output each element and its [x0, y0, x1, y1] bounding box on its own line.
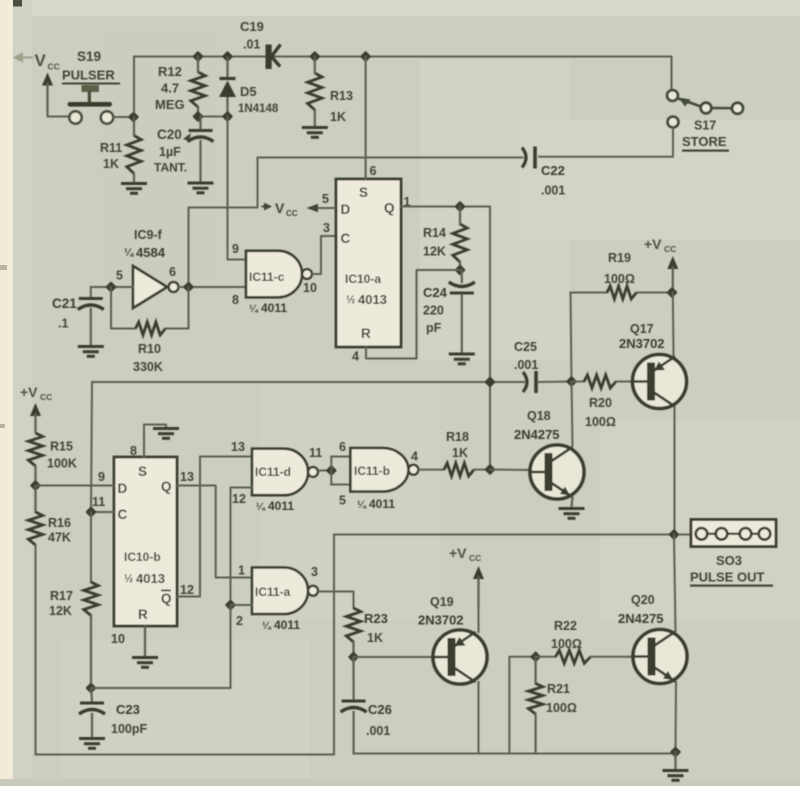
- svg-text:¼: ¼: [262, 620, 272, 632]
- svg-text:12K: 12K: [49, 604, 72, 618]
- wire Q19 collector down to bottom rail: [478, 682, 480, 754]
- svg-text:CC: CC: [469, 553, 481, 563]
- resistor R22: [556, 650, 591, 663]
- wire C24 to ground: [461, 295, 463, 352]
- wire input node left segment: [91, 286, 111, 288]
- junction top rail / R12: [192, 51, 203, 62]
- svg-text:8: 8: [232, 293, 239, 307]
- switch S19 pushbutton: [68, 85, 114, 124]
- svg-text:+V: +V: [449, 545, 467, 561]
- wire tie node vertical: [330, 457, 332, 485]
- svg-text:C23: C23: [116, 702, 140, 717]
- svg-text:100pF: 100pF: [111, 722, 147, 736]
- wire IC10-b S pin to ground: [144, 425, 166, 458]
- svg-text:.001: .001: [366, 724, 390, 738]
- junction R14/C24/R-pin loop: [454, 264, 465, 275]
- wire top rail down to S17 pole: [670, 57, 673, 90]
- svg-text:¼: ¼: [357, 499, 367, 511]
- svg-text:D5: D5: [240, 84, 257, 99]
- junction top rail / D5: [222, 51, 233, 62]
- resistor R21: [528, 684, 542, 715]
- svg-text:IC11-c: IC11-c: [249, 270, 285, 284]
- svg-text:5: 5: [339, 494, 346, 508]
- svg-text:4584: 4584: [136, 245, 166, 260]
- svg-text:pF: pF: [426, 321, 442, 335]
- svg-text:IC11-a: IC11-a: [255, 585, 291, 599]
- resistor R16: [28, 512, 42, 545]
- wire to IC11-b pin 6: [331, 456, 350, 458]
- svg-text:2N4275: 2N4275: [514, 427, 560, 442]
- wire Q20 collector up to SO3 node: [674, 535, 676, 632]
- power +Vcc arrow (Q19): [473, 566, 484, 608]
- svg-text:C26: C26: [368, 702, 392, 717]
- wire node to R22: [536, 656, 556, 658]
- junction Q output / R14: [454, 201, 465, 212]
- svg-text:IC9-f: IC9-f: [134, 228, 163, 242]
- wire cross row y=207.5 and up to C22 row: [189, 158, 258, 208]
- page corner mark: [13, 0, 22, 7]
- ground Q18: [559, 509, 585, 519]
- svg-text:½: ½: [346, 294, 355, 306]
- resistor R18: [444, 463, 474, 476]
- wire rail corner down to C pin node: [91, 382, 92, 512]
- wire C22 left to corner x=257.5: [258, 157, 523, 159]
- svg-text:Q18: Q18: [527, 409, 551, 423]
- wire node to SO3 connector: [679, 534, 691, 536]
- wire rail to R13: [314, 57, 316, 74]
- svg-text:C20: C20: [157, 127, 182, 142]
- svg-text:1N4148: 1N4148: [238, 103, 279, 115]
- wire rail y=382 from x=92 to C25: [92, 381, 524, 383]
- wire R19 left down to R20 node: [571, 293, 572, 382]
- junction R15/R16/IC10-b D: [30, 480, 41, 491]
- svg-text:R18: R18: [446, 430, 469, 444]
- wire D5 bottom down to IC11-c pin 9 level: [227, 117, 229, 260]
- svg-text:½: ½: [124, 573, 133, 585]
- ground R11: [121, 184, 147, 194]
- power +Vcc arrow (S19): [42, 73, 53, 116]
- svg-text:4013: 4013: [136, 571, 165, 586]
- svg-text:PULSER: PULSER: [62, 68, 115, 83]
- wire junction to C20: [199, 117, 201, 129]
- page edge specks: [0, 265, 7, 428]
- wire top rail to IC10-a pin 6 (S): [365, 57, 367, 180]
- svg-text:C25: C25: [514, 340, 537, 354]
- svg-text:TANT.: TANT.: [154, 161, 187, 175]
- junction inverter input / R10: [105, 281, 116, 292]
- wire C pin node down to R17: [90, 512, 92, 582]
- junction IC11-d out / IC11-b inputs: [326, 465, 337, 476]
- wire Q17 collector down to SO3 node: [674, 408, 676, 535]
- svg-text:R20: R20: [589, 396, 612, 410]
- wire node to R20: [572, 381, 585, 383]
- svg-text:+V: +V: [20, 384, 38, 400]
- svg-text:C: C: [341, 231, 351, 246]
- wire pin 2 node down-left to C23 node: [91, 605, 231, 688]
- svg-text:CC: CC: [664, 244, 676, 254]
- logic gate IC11-b (NAND): [350, 448, 418, 492]
- wire IC11-d output to tie node: [319, 470, 331, 472]
- svg-text:1K: 1K: [367, 631, 383, 645]
- svg-text:6: 6: [339, 440, 346, 454]
- label C20 pointer arrow: [183, 133, 191, 141]
- wire rail to R12: [197, 57, 199, 73]
- svg-text:STORE: STORE: [682, 134, 727, 149]
- capacitor C26 .001: [341, 701, 367, 712]
- svg-text:IC10-b: IC10-b: [124, 550, 161, 564]
- svg-text:R16: R16: [48, 516, 71, 530]
- svg-text:IC11-d: IC11-d: [255, 465, 291, 479]
- junction C25/R19/R20/Q18 collector: [566, 376, 577, 387]
- svg-text:R13: R13: [330, 89, 353, 103]
- resistor R12: [191, 72, 205, 107]
- ground IC10-b pin 10: [132, 658, 158, 668]
- svg-text:11: 11: [309, 446, 322, 460]
- wire S19 to R11 junction: [113, 116, 133, 118]
- wire IC10-b R pin to ground: [144, 626, 146, 656]
- junction C pin / R17 column: [85, 506, 96, 517]
- svg-text:C24: C24: [423, 285, 448, 300]
- diode D5 1N4148: [219, 57, 236, 117]
- wire down to IC9-f output junction: [188, 208, 190, 288]
- wire into IC11-c pin 9: [228, 259, 247, 261]
- svg-text:4: 4: [352, 350, 359, 364]
- wire IC10-a D pin with left arrow: [307, 204, 337, 212]
- svg-text:S: S: [359, 185, 368, 200]
- wire node to Q19 base: [354, 656, 433, 658]
- svg-text:R21: R21: [547, 682, 570, 696]
- junction R12/C20: [192, 111, 203, 122]
- logic gate IC11-c (NAND): [246, 251, 312, 297]
- wire to R14 top: [459, 207, 461, 225]
- ground Q20 (main): [663, 771, 689, 781]
- svg-text:R11: R11: [100, 141, 122, 155]
- svg-text:R17: R17: [50, 589, 73, 603]
- svg-text:.1: .1: [58, 317, 68, 331]
- svg-text:6: 6: [169, 265, 176, 279]
- wire junction to C24: [460, 270, 462, 282]
- wire node to IC10-b D pin: [36, 485, 115, 487]
- wire Q18 collector up to R20 node: [572, 382, 573, 446]
- logic gate IC11-a (NAND): [252, 568, 318, 615]
- svg-text:IC10-a: IC10-a: [345, 272, 381, 286]
- wire IC11-a output to R23: [319, 592, 354, 609]
- wire junction to R11: [133, 117, 135, 136]
- svg-text:C21: C21: [52, 296, 77, 311]
- svg-text:C19: C19: [240, 19, 264, 34]
- wire C26 to bottom rail: [353, 712, 355, 754]
- svg-text:12: 12: [232, 492, 246, 506]
- op-amp/inverter IC9-f: [133, 266, 178, 308]
- wire R22 to Q20 base: [591, 656, 635, 658]
- label STORE underline: [682, 150, 729, 152]
- junction S19/R11/top-rail: [128, 111, 139, 122]
- svg-text:S17: S17: [694, 119, 716, 133]
- wire node to C23: [91, 688, 92, 701]
- svg-text:3: 3: [323, 221, 330, 235]
- resistor R10: [136, 322, 166, 335]
- power +Vcc arrow (R15): [30, 403, 41, 433]
- wire to IC11-b pin 5: [331, 484, 350, 486]
- svg-text:4011: 4011: [261, 301, 287, 315]
- svg-text:12K: 12K: [423, 245, 446, 259]
- svg-text:47K: 47K: [48, 531, 71, 545]
- svg-text:+V: +V: [644, 236, 662, 252]
- svg-text:1: 1: [238, 564, 245, 578]
- junction R18 / Q column / Q18 base: [484, 464, 495, 475]
- wire bottom rail: [354, 753, 676, 755]
- junction inverter output / feedback: [183, 281, 194, 292]
- label PULSE OUT underline: [690, 585, 773, 587]
- junction R19 / Vcc column: [666, 287, 677, 298]
- wire feedback down-left: [111, 287, 136, 329]
- svg-text:8: 8: [130, 444, 137, 458]
- svg-text:4011: 4011: [268, 499, 294, 513]
- svg-text:4.7: 4.7: [161, 81, 179, 96]
- svg-text:R23: R23: [364, 611, 388, 626]
- svg-text:R15: R15: [50, 440, 73, 454]
- svg-text:S19: S19: [77, 49, 101, 64]
- capacitor C25: [523, 371, 536, 393]
- svg-text:9: 9: [232, 242, 239, 256]
- wire S17 lower throw to C22: [539, 128, 673, 157]
- wire Q20 emitter to rail node: [675, 682, 678, 752]
- svg-text:MEG: MEG: [155, 97, 185, 112]
- wire C20 to ground: [199, 141, 201, 181]
- wire R13 to ground: [314, 110, 316, 126]
- svg-text:Q19: Q19: [430, 595, 454, 609]
- resistor R11: [127, 136, 141, 174]
- capacitor C24 220pF: [449, 282, 475, 293]
- svg-text:4011: 4011: [369, 497, 395, 511]
- svg-text:4013: 4013: [358, 292, 387, 307]
- svg-text:V: V: [35, 51, 47, 70]
- svg-text:1K: 1K: [103, 157, 119, 171]
- svg-text:13: 13: [231, 440, 245, 454]
- svg-text:11: 11: [92, 495, 105, 509]
- transistor Q17 (2N3702 PNP): [633, 355, 687, 409]
- svg-text:1K: 1K: [452, 446, 468, 460]
- IC U10-b body (1/2 4013): [114, 457, 177, 626]
- svg-text:.01: .01: [243, 38, 260, 52]
- capacitor C20 1uF TANT: [188, 131, 214, 142]
- svg-text:¼: ¼: [124, 247, 134, 259]
- svg-text:Q: Q: [384, 201, 395, 216]
- svg-text:220: 220: [423, 304, 444, 318]
- wire node to ground: [674, 752, 676, 769]
- label PULSER underline: [62, 83, 120, 85]
- wire node to R16: [34, 486, 36, 513]
- junction top rail / R13: [309, 51, 320, 62]
- wire R11 to ground: [133, 174, 135, 183]
- resistor R19: [607, 286, 637, 299]
- wire node to IC11-a pin 2: [231, 604, 253, 606]
- power +Vcc arrow (Q17): [667, 256, 678, 293]
- svg-text:4011: 4011: [274, 618, 300, 632]
- wire R14 bottom: [459, 262, 461, 270]
- svg-text:V: V: [275, 200, 285, 216]
- junction rail / Q column: [484, 376, 495, 387]
- node +Vcc top-left faint arrow: [15, 54, 33, 61]
- wire R23 to base node: [352, 642, 354, 657]
- wire C21 node to inverter input: [111, 286, 133, 288]
- svg-text:2: 2: [236, 614, 243, 628]
- wire Vcc to Q19 emitter: [478, 606, 480, 632]
- wire C25 to R20 node: [539, 381, 572, 384]
- svg-text:R: R: [138, 607, 148, 622]
- svg-text:S: S: [138, 464, 147, 479]
- svg-text:.001: .001: [541, 184, 565, 198]
- wire node down to R21: [534, 657, 536, 684]
- resistor R13: [308, 73, 322, 110]
- wire node down to C26: [352, 657, 354, 699]
- svg-text:R: R: [361, 326, 371, 341]
- junction pin 12 column / IC11-a pin 2: [225, 599, 236, 610]
- svg-text:12: 12: [180, 583, 194, 597]
- svg-text:CC: CC: [40, 392, 52, 402]
- svg-text:1K: 1K: [330, 110, 346, 124]
- resistor R23: [346, 608, 360, 642]
- svg-text:4: 4: [411, 450, 418, 464]
- wire pin 12 column down to pin 2 node: [230, 488, 232, 606]
- capacitor C21: [78, 299, 104, 310]
- resistor R15: [28, 433, 42, 466]
- svg-text:100Ω: 100Ω: [585, 415, 616, 429]
- wire Vcc column to Q17 emitter: [672, 293, 675, 356]
- wire inverter output to IC11-c pin 8: [179, 286, 247, 288]
- junction R23/C26/Q19 base: [348, 651, 359, 662]
- connector SO3 (pulse out): [691, 520, 776, 547]
- wire R20 to Q17 base: [616, 381, 633, 383]
- IC U10-a body (1/2 4013): [336, 179, 401, 347]
- svg-text:6: 6: [370, 164, 377, 178]
- wire C23 to ground: [91, 714, 93, 737]
- wire R16 down, bottom-left rail, up to SO3 row: [36, 535, 335, 755]
- svg-text:10: 10: [303, 281, 317, 295]
- wire SO3 row: [334, 534, 674, 536]
- svg-text:C: C: [118, 507, 128, 522]
- wire C21 to ground: [90, 309, 92, 345]
- resistor R14: [453, 224, 467, 262]
- transistor Q19 (2N3702 PNP): [433, 630, 487, 684]
- wire R21 to bottom rail: [534, 714, 536, 754]
- wire feedback right-up: [166, 287, 189, 329]
- svg-text:13: 13: [180, 470, 194, 484]
- svg-text:D: D: [118, 481, 128, 496]
- junction R17/C23/pin2 wire: [85, 682, 96, 693]
- svg-text:R19: R19: [608, 251, 631, 265]
- wire R17 to C23 node: [90, 616, 92, 689]
- junction D5 bottom: [222, 111, 233, 122]
- logic gate IC11-d (NAND): [252, 449, 318, 496]
- svg-text:CC: CC: [48, 62, 60, 72]
- resistor R20: [584, 375, 616, 388]
- ground IC10-b pin 8: [153, 429, 179, 439]
- wire down to C21: [90, 287, 92, 297]
- wire Q18 emitter to ground: [572, 497, 573, 507]
- svg-text:2N3702: 2N3702: [619, 336, 665, 351]
- wire IC11-b output to R18: [418, 469, 444, 471]
- wire IC11-c output to IC10-a C pin: [313, 236, 336, 274]
- wire Vcc arrow to S19 pole: [48, 115, 70, 117]
- svg-text:100K: 100K: [47, 457, 77, 471]
- wire node to Q18 base: [490, 469, 530, 472]
- ground R13: [302, 128, 328, 138]
- svg-text:3: 3: [311, 565, 318, 579]
- svg-text:R22: R22: [554, 619, 577, 633]
- svg-text:Q: Q: [161, 591, 172, 606]
- svg-text:100Ω: 100Ω: [546, 701, 577, 715]
- switch S17 (SPDT): [667, 90, 743, 127]
- ground C24: [449, 354, 475, 364]
- svg-text:1µF: 1µF: [159, 145, 181, 159]
- svg-text:¼: ¼: [256, 501, 266, 513]
- wire IC11-d pin 12 stub: [231, 487, 253, 489]
- wire R19 right: [637, 292, 673, 294]
- svg-text:.001: .001: [514, 358, 538, 372]
- svg-text:100Ω: 100Ω: [551, 637, 582, 651]
- wire IC10-a Q output down to Q18 base node: [401, 207, 490, 470]
- transistor Q20 (2N4275 NPN): [633, 630, 687, 684]
- ground C21: [78, 347, 104, 357]
- wire rail up to R22 row: [509, 657, 535, 754]
- svg-text:R14: R14: [423, 226, 446, 240]
- wire R19 left: [571, 292, 608, 294]
- resistor R17: [84, 582, 98, 616]
- capacitor C23 100pF: [79, 703, 105, 714]
- junction R22 / R21: [530, 651, 541, 662]
- svg-text:100Ω: 100Ω: [604, 272, 635, 286]
- wire x=91 column to IC10-b C pin: [91, 511, 114, 513]
- wire R12 bottom to D5 bottom: [198, 116, 228, 118]
- svg-text:Q17: Q17: [630, 322, 654, 336]
- svg-text:5: 5: [322, 192, 329, 206]
- node +Vcc at IC10-a D pin: [262, 203, 273, 211]
- wire R18 to Q18 base node: [474, 469, 490, 471]
- svg-text:Q: Q: [161, 479, 172, 494]
- svg-text:SO3: SO3: [716, 553, 742, 568]
- svg-text:2N4275: 2N4275: [618, 611, 664, 626]
- svg-text:10: 10: [111, 632, 125, 646]
- ground C20: [188, 183, 214, 193]
- wire IC10-b Q to IC11-a pin 1: [177, 486, 252, 578]
- wire top rail y=56.5: [134, 56, 671, 58]
- svg-text:5: 5: [116, 269, 123, 283]
- ground C23: [79, 739, 105, 749]
- svg-text:2N3702: 2N3702: [418, 613, 464, 628]
- svg-text:9: 9: [98, 470, 105, 484]
- wire R12 to junction: [197, 107, 199, 117]
- svg-text:CC: CC: [286, 209, 298, 218]
- wire R15 to D-pin node: [34, 466, 36, 486]
- svg-text:R12: R12: [158, 64, 182, 79]
- junction Q20 emitter / rail / ground: [670, 746, 681, 757]
- junction SO3 / Q17-Q20 collectors: [668, 529, 679, 540]
- svg-text:D: D: [341, 202, 351, 217]
- wire IC10-a R pin loop to R14/C24 node: [366, 270, 460, 359]
- wire junction up to top rail: [133, 58, 135, 113]
- svg-text:PULSE OUT: PULSE OUT: [690, 570, 764, 585]
- svg-text:Q20: Q20: [631, 593, 655, 607]
- svg-text:¼: ¼: [249, 303, 259, 315]
- svg-text:R10: R10: [138, 342, 161, 356]
- capacitor C19 (series, K-style symbol): [266, 45, 281, 69]
- wire IC10-b Qbar to IC11-d pin 13: [177, 457, 252, 597]
- svg-text:330K: 330K: [133, 360, 163, 374]
- svg-text:C22: C22: [541, 163, 565, 178]
- junction top rail / IC10-a pin 6: [360, 51, 371, 62]
- transistor Q18 (2N4275 NPN): [530, 445, 584, 499]
